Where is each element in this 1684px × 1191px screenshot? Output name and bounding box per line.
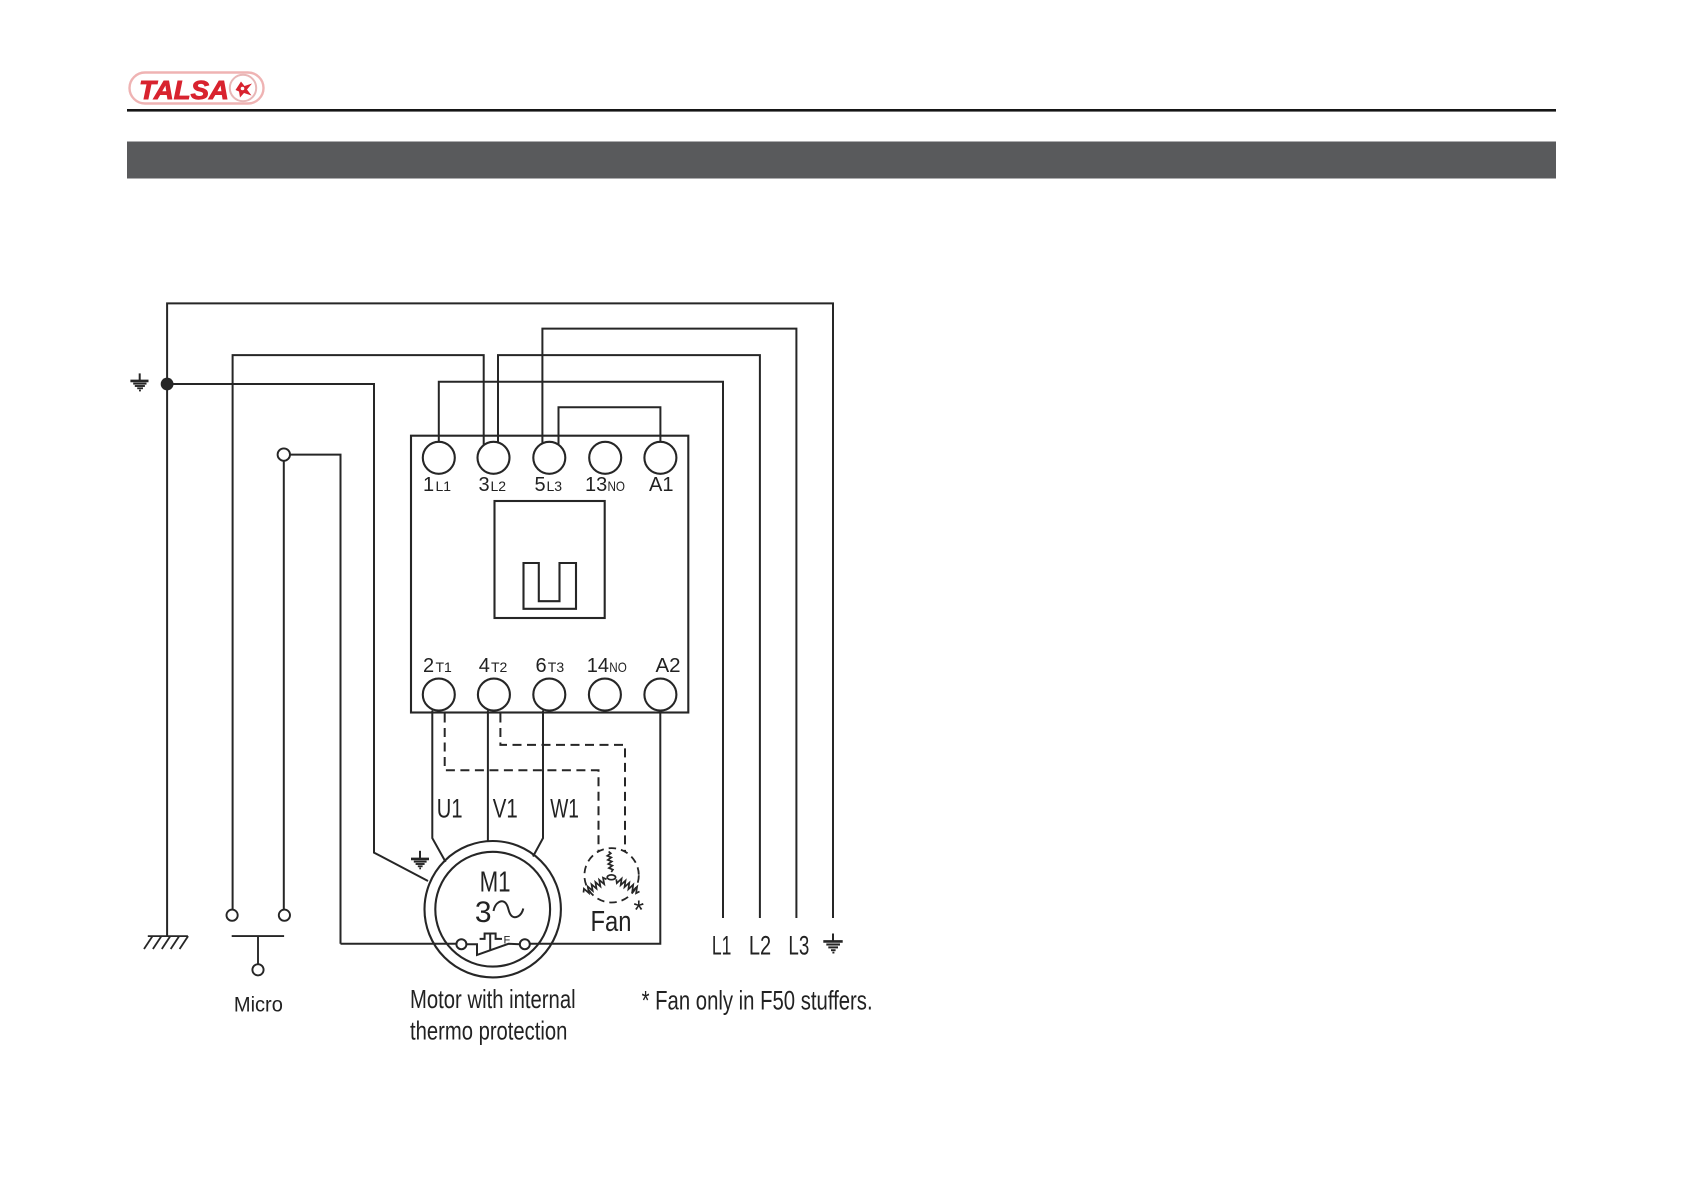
svg-text:V1: V1 <box>493 794 518 824</box>
svg-text:Fan: Fan <box>591 906 632 938</box>
svg-text:1: 1 <box>423 474 434 496</box>
svg-text:*: * <box>634 895 645 925</box>
svg-text:6: 6 <box>536 655 547 677</box>
svg-text:Micro: Micro <box>234 993 283 1017</box>
svg-text:14: 14 <box>587 655 609 677</box>
svg-text:L3: L3 <box>788 931 809 961</box>
svg-text:2: 2 <box>423 655 434 677</box>
svg-text:L1: L1 <box>436 478 452 494</box>
svg-text:T2: T2 <box>491 659 508 675</box>
svg-text:NO: NO <box>608 478 626 494</box>
svg-text:M1: M1 <box>480 867 511 899</box>
svg-text:W1: W1 <box>550 794 579 824</box>
svg-text:A2: A2 <box>656 654 681 677</box>
svg-text:3: 3 <box>479 474 490 496</box>
svg-text:F: F <box>504 935 511 947</box>
svg-text:A1: A1 <box>649 474 673 496</box>
svg-text:* Fan only in F50 stuffers.: * Fan only in F50 stuffers. <box>642 986 873 1016</box>
svg-text:L1: L1 <box>712 931 732 961</box>
svg-text:NO: NO <box>609 659 627 675</box>
svg-text:L2: L2 <box>749 931 771 961</box>
svg-text:U1: U1 <box>437 794 463 824</box>
svg-text:L2: L2 <box>491 478 507 494</box>
svg-text:3: 3 <box>475 896 492 929</box>
svg-text:Motor with internal: Motor with internal <box>410 984 576 1014</box>
svg-text:4: 4 <box>479 655 490 677</box>
svg-text:thermo protection: thermo protection <box>410 1016 567 1046</box>
svg-text:T3: T3 <box>548 659 565 675</box>
svg-text:13: 13 <box>585 474 607 496</box>
svg-text:5: 5 <box>535 474 546 496</box>
svg-text:L3: L3 <box>547 478 563 494</box>
svg-text:T1: T1 <box>436 659 453 675</box>
svg-text:TALSA: TALSA <box>139 75 229 105</box>
